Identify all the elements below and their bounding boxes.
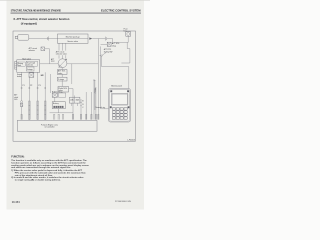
svg-text:rol controller: rol controller <box>45 126 55 129</box>
svg-text:PC100/160LC-6N: PC100/160LC-6N <box>115 201 131 203</box>
svg-text:L-F02013: L-F02013 <box>127 139 135 141</box>
svg-text:ELECTRIC CONTROL SYSTEM: ELECTRIC CONTROL SYSTEM <box>101 8 141 12</box>
svg-text:2-stage: 2-stage <box>27 68 33 71</box>
svg-text:FUNCTION:: FUNCTION: <box>11 156 24 159</box>
svg-text:Machine push-up: Machine push-up <box>66 37 80 39</box>
svg-text:P3: P3 <box>38 85 40 87</box>
svg-text:and which are transmitted thro: and which are transmitted through the ne… <box>11 166 71 169</box>
svg-text:brake: brake <box>17 76 22 78</box>
svg-text:SOL: SOL <box>14 99 18 101</box>
svg-text:(if equipped): (if equipped) <box>21 21 37 25</box>
svg-text:selector: selector <box>27 63 34 66</box>
svg-text:lock: lock <box>18 65 21 67</box>
svg-text:selector: selector <box>29 49 36 52</box>
svg-text:P2: P2 <box>30 85 32 87</box>
svg-text:Safety SW: Safety SW <box>104 50 113 53</box>
svg-text:valve: valve <box>58 73 62 75</box>
svg-text:Service valve: Service valve <box>67 41 78 43</box>
svg-text:STRUCTURE, FUNCTION AND MAINTE: STRUCTURE, FUNCTION AND MAINTENANCE STAN… <box>11 8 61 12</box>
svg-text:to single acting (B) or double: to single acting (B) or double acting (o… <box>15 179 61 182</box>
svg-text:2 stage: 2 stage <box>58 78 64 81</box>
svg-text:Network sig.: Network sig. <box>95 106 105 109</box>
svg-text:Battery: Battery <box>53 102 59 105</box>
svg-text:selector valve: selector valve <box>56 53 67 56</box>
svg-text:CN2A: CN2A <box>94 88 97 94</box>
svg-text:relay: relay <box>112 45 116 47</box>
svg-text:10-154: 10-154 <box>12 201 20 204</box>
svg-text:6. ATT flow control, circuit: 6. ATT flow control, circuit selector fu… <box>14 17 70 21</box>
svg-text:box: box <box>124 30 127 32</box>
svg-text:P1: P1 <box>22 85 24 87</box>
svg-text:Monitor panel: Monitor panel <box>111 84 122 87</box>
